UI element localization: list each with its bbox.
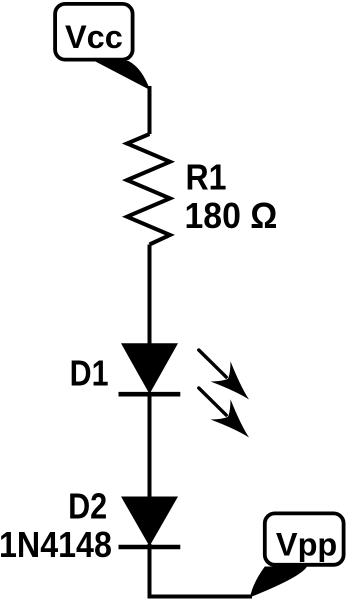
svg-text:Vcc: Vcc	[65, 19, 123, 55]
svg-text:Vpp: Vpp	[276, 526, 337, 562]
svg-text:R1: R1	[186, 156, 227, 197]
svg-text:D2: D2	[68, 486, 107, 527]
svg-text:180 Ω: 180 Ω	[185, 195, 278, 236]
svg-text:D1: D1	[70, 352, 109, 393]
svg-text:1N4148: 1N4148	[0, 524, 112, 565]
